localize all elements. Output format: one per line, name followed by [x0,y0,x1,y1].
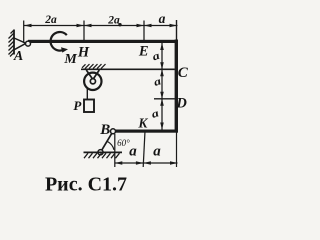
svg-text:P: P [73,98,82,113]
svg-text:D: D [175,96,187,112]
svg-text:C: C [178,65,189,81]
svg-text:60°: 60° [117,138,130,148]
svg-text:K: K [137,116,148,131]
svg-text:H: H [77,45,90,61]
svg-text:2a: 2a [107,14,120,26]
svg-text:2a: 2a [44,14,57,26]
svg-text:M: M [63,52,77,67]
svg-text:B: B [99,122,110,138]
svg-text:Рис. С1.7: Рис. С1.7 [45,174,127,196]
svg-text:A: A [13,49,23,64]
svg-text:E: E [138,44,149,60]
svg-text:a: a [153,144,161,160]
svg-text:a: a [129,144,137,160]
svg-text:a: a [159,11,166,26]
